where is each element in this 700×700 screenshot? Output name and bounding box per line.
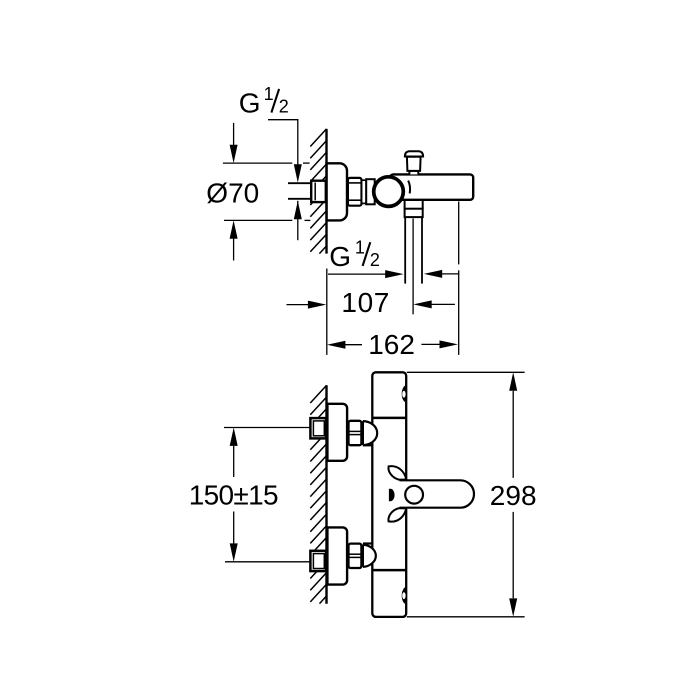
298 arrow down <box>509 598 517 616</box>
diverter pull knob (side view) <box>405 151 423 174</box>
162 right arrow (inside, pointing right) <box>421 343 440 345</box>
dimension: G 1/2 (hose connection label) <box>329 238 380 272</box>
svg-text:Ø70: Ø70 <box>206 177 259 208</box>
Ø70 extension line bottom <box>224 219 292 221</box>
wall hatching (side view, top figure) <box>310 129 326 254</box>
faucet body (front view) <box>372 372 406 617</box>
spout stadium outline (front view) <box>400 480 475 507</box>
inlet boss line top <box>363 444 374 446</box>
dimension: G 1/2 (top label) <box>239 84 289 118</box>
supply pipe (side view) <box>288 183 312 199</box>
inlet dome top (front view) <box>363 421 377 445</box>
aerator circle (front view) <box>405 486 423 504</box>
body division line top <box>372 417 406 420</box>
supply pipe top (front view) <box>224 427 311 429</box>
wall surface extension line (below wall) <box>326 269 328 355</box>
washer ring (side view) <box>362 180 367 203</box>
body division line bottom <box>372 569 406 572</box>
298 arrow up <box>509 372 517 390</box>
screw top (front view) <box>402 385 407 402</box>
body shoulder arc (side view) <box>408 181 410 194</box>
faucet body (side view) <box>390 174 473 199</box>
150±15 dimension line <box>233 446 235 544</box>
leader with arrow to hose left edge <box>328 273 386 275</box>
107 left arrow (outside, pointing right at wall) <box>287 304 309 306</box>
svg-text:G: G <box>239 88 261 119</box>
inlet dome bottom (front view) <box>363 545 376 567</box>
svg-text:107: 107 <box>341 287 390 318</box>
wall union square bottom (front view) <box>310 551 326 571</box>
supply pipe bottom (front view) <box>225 561 311 563</box>
svg-text:2: 2 <box>279 97 289 117</box>
arrow up at pipe bottom (G 1/2 dim) <box>294 201 302 219</box>
screw bottom (front view) <box>402 587 407 604</box>
150±15 arrow up <box>230 428 238 446</box>
Ø70 dimension line <box>233 123 235 146</box>
arrow up at escutcheon bottom (Ø70) <box>230 220 238 238</box>
svg-text:1: 1 <box>264 84 274 104</box>
spout upper leaf (front view) <box>388 466 406 479</box>
wall hatching (front view) <box>310 385 326 603</box>
hose centre extension line <box>412 219 414 315</box>
spout lower leaf (front view) <box>388 508 406 521</box>
inlet boss line bottom <box>363 542 374 544</box>
arrow down at escutcheon top (Ø70) <box>230 145 238 163</box>
svg-text:2: 2 <box>370 250 380 270</box>
adapter cone (side view) <box>366 179 375 204</box>
wall union square fitting (side view) <box>311 181 326 202</box>
arrow to hose right edge <box>441 273 459 275</box>
spout tip marker (black D) <box>389 489 395 501</box>
escutcheon (side view) <box>327 163 347 220</box>
162 left arrow (inside, pointing left at wall) <box>345 344 362 346</box>
wall surface line (front view) <box>325 385 327 604</box>
leader line for top G 1/2 <box>268 120 298 241</box>
temperature knob circle (side view) <box>374 177 404 207</box>
union nut (side view) <box>348 178 362 206</box>
107 right arrow (outside, pointing left at hose centre) <box>431 303 455 305</box>
escutcheon bottom (front view) <box>327 527 347 584</box>
union nut bottom (front view) <box>349 544 362 568</box>
svg-text:150±15: 150±15 <box>189 480 278 511</box>
298 extension line top <box>407 372 525 617</box>
Ø70 extension line top <box>223 123 311 261</box>
wall union square top (front view) <box>310 418 326 438</box>
escutcheon top (front view) <box>327 404 347 461</box>
shower hose (side view) <box>405 217 422 284</box>
extension line at x=162 end <box>458 202 460 355</box>
150±15 arrow down <box>230 543 238 561</box>
svg-text:1: 1 <box>355 238 365 258</box>
union nut top (front view) <box>349 421 362 445</box>
wall surface line (side view) <box>325 129 327 254</box>
svg-text:298: 298 <box>490 480 537 511</box>
svg-text:G: G <box>329 241 351 272</box>
hose coupling nut (side view) <box>405 209 423 217</box>
298 dimension line <box>512 391 514 478</box>
298 extension line bottom <box>407 616 525 618</box>
arrow down at pipe top (G 1/2 dim) <box>294 164 302 182</box>
hand shower outlet stub (side view) <box>405 200 423 209</box>
svg-text:162: 162 <box>368 329 415 360</box>
